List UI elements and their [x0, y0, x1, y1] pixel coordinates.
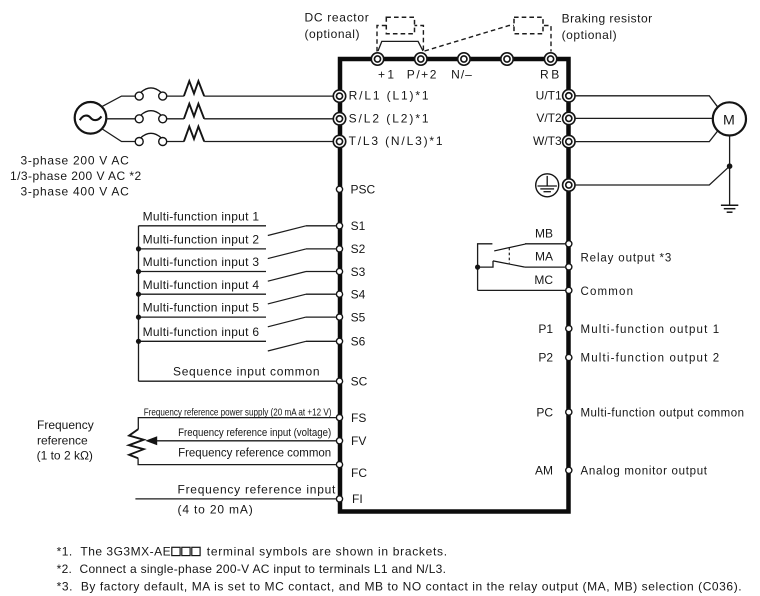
svg-text:MA: MA	[535, 250, 553, 264]
svg-text:S6: S6	[351, 335, 366, 349]
svg-text:FC: FC	[351, 466, 367, 480]
svg-text:PC: PC	[536, 405, 553, 419]
svg-text:*1. The 3G3MX-AE: *1. The 3G3MX-AE	[57, 545, 171, 559]
svg-text:Frequency: Frequency	[37, 418, 94, 432]
terminal MA	[566, 264, 572, 270]
svg-text:P2: P2	[538, 351, 553, 365]
svg-text:(1 to 2 kΩ): (1 to 2 kΩ)	[37, 449, 93, 463]
braking resistor R dashed box	[514, 17, 543, 33]
svg-text:Sequence input common: Sequence input common	[173, 365, 320, 379]
svg-text:Multi-function input 6: Multi-function input 6	[143, 325, 260, 339]
svg-text:Frequency reference common: Frequency reference common	[178, 448, 331, 460]
reactor coil L-R	[184, 81, 204, 96]
terminal S/L2	[333, 113, 345, 125]
ground symbol	[721, 205, 738, 212]
svg-text:T/L3 (N/L3)*1: T/L3 (N/L3)*1	[349, 134, 443, 148]
breaker CB2 (S phase)	[135, 111, 167, 123]
svg-text:reference: reference	[37, 433, 88, 447]
terminal SC	[336, 378, 342, 384]
input S6 row	[136, 339, 336, 351]
terminal AM	[566, 467, 572, 473]
protective earth symbol	[536, 174, 559, 197]
input S4 row	[136, 292, 336, 304]
svg-text:Frequency reference power supp: Frequency reference power supply (20 mA …	[144, 406, 332, 418]
FV wiper arrow	[145, 436, 157, 445]
terminal PSC	[336, 186, 342, 192]
wire source to T phase	[102, 129, 136, 142]
svg-text:(optional): (optional)	[305, 27, 360, 41]
terminal +1	[371, 53, 383, 65]
input S1 row	[139, 226, 336, 236]
braking resistor dashed wires	[425, 26, 552, 52]
input S5 row	[136, 315, 336, 327]
DC reactor L1 dashed box	[386, 17, 414, 33]
terminal PC	[566, 409, 572, 415]
terminal FS	[336, 415, 342, 421]
terminal P/+2	[415, 53, 427, 65]
svg-text:(4 to 20 mA): (4 to 20 mA)	[178, 503, 253, 517]
terminal T/L3	[333, 135, 345, 147]
wire coil to S/L2	[204, 118, 333, 120]
potentiometer RV1	[129, 429, 144, 458]
svg-text:U/T1: U/T1	[536, 88, 562, 102]
inverter body box U1	[340, 59, 569, 512]
svg-text:*2. Connect a single-phase 20: *2. Connect a single-phase 200-V AC inpu…	[57, 562, 446, 576]
svg-text:Multi-function input 1: Multi-function input 1	[143, 209, 260, 223]
input S2 row	[136, 246, 336, 258]
motor M1	[713, 102, 746, 135]
jumper link +1 to P/+2	[378, 41, 423, 51]
input S3 row	[136, 269, 336, 281]
DC reactor dashed wires	[377, 26, 423, 52]
wire V/T2 to motor	[576, 117, 714, 119]
wire U/T1 to motor	[576, 96, 718, 108]
AC source G1	[75, 102, 107, 134]
svg-text:P1: P1	[538, 322, 553, 336]
svg-text:Multi-function output common: Multi-function output common	[581, 407, 745, 419]
svg-text:FS: FS	[351, 411, 366, 425]
sequence common wire	[139, 380, 336, 382]
relay contact K1	[478, 244, 527, 291]
svg-text:Multi-function input 3: Multi-function input 3	[143, 255, 260, 269]
svg-text:Common: Common	[581, 286, 634, 298]
svg-text:DC reactor: DC reactor	[305, 11, 369, 25]
wire CB3 to coil	[167, 141, 184, 143]
svg-text:FI: FI	[352, 492, 363, 506]
svg-text:*3. By factory default, MA is: *3. By factory default, MA is set to MC …	[57, 580, 742, 594]
terminal FC	[336, 462, 342, 468]
wire CB1 to coil	[167, 95, 184, 97]
reactor coil L-T	[184, 127, 204, 142]
wire CB2 to coil	[167, 118, 184, 120]
terminal spare	[501, 53, 513, 65]
svg-text:S2: S2	[351, 242, 366, 256]
svg-text:Multi-function input 4: Multi-function input 4	[143, 278, 260, 292]
svg-text:Frequency reference input: Frequency reference input	[178, 483, 337, 497]
svg-text:Multi-function output 1: Multi-function output 1	[581, 324, 720, 336]
svg-text:S1: S1	[351, 219, 366, 233]
breaker CB3 (T phase)	[135, 133, 167, 145]
svg-text:AM: AM	[535, 464, 553, 478]
terminal S2	[336, 246, 342, 252]
FS wire	[138, 418, 336, 430]
svg-text:MB: MB	[535, 226, 553, 240]
multi-function input bus	[138, 226, 140, 381]
MA wire	[525, 266, 565, 268]
svg-text:R/L1 (L1)*1: R/L1 (L1)*1	[349, 89, 429, 103]
svg-text:S5: S5	[351, 310, 366, 324]
wire source to R phase	[102, 96, 136, 107]
motor ground stem	[729, 136, 731, 206]
terminal P1	[566, 326, 572, 332]
svg-text:1/3-phase 200 V AC *2: 1/3-phase 200 V AC *2	[10, 169, 142, 183]
terminal S4	[336, 291, 342, 297]
terminal R/L1	[333, 90, 345, 102]
terminal N/-	[458, 53, 470, 65]
terminal S5	[336, 314, 342, 320]
terminal S6	[336, 338, 342, 344]
terminal FI	[336, 496, 342, 502]
svg-text:Multi-function output 2: Multi-function output 2	[581, 353, 720, 365]
MC wire	[478, 289, 566, 291]
svg-text:3-phase 200 V AC: 3-phase 200 V AC	[21, 154, 130, 168]
svg-text:Analog monitor output: Analog monitor output	[581, 466, 708, 478]
terminal W/T3	[563, 135, 575, 147]
svg-text:MC: MC	[534, 273, 553, 287]
svg-text:S3: S3	[351, 265, 366, 279]
svg-text:V/T2: V/T2	[536, 111, 562, 125]
svg-text:terminal symbols are shown in: terminal symbols are shown in brackets.	[207, 545, 447, 559]
svg-text:PSC: PSC	[351, 183, 376, 197]
FI wire	[135, 498, 336, 500]
terminal FV	[336, 438, 342, 444]
wire W/T3 to motor	[576, 131, 718, 142]
wire coil to T/L3	[204, 141, 333, 143]
terminal S3	[336, 268, 342, 274]
wire coil to R/L1	[204, 95, 333, 97]
svg-text:Relay output *3: Relay output *3	[581, 252, 672, 264]
wire source to S phase	[106, 118, 135, 120]
terminal U/T1	[563, 90, 575, 102]
svg-text:P/+2: P/+2	[407, 68, 437, 82]
svg-text:3-phase 400 V AC: 3-phase 400 V AC	[21, 185, 130, 199]
svg-text:SC: SC	[351, 375, 368, 389]
breaker CB1 (R phase)	[135, 88, 167, 100]
svg-text:FV: FV	[351, 434, 366, 448]
svg-text:(optional): (optional)	[562, 28, 617, 42]
MB wire	[525, 243, 565, 245]
terminal earth	[563, 179, 575, 191]
svg-text:W/T3: W/T3	[533, 134, 562, 148]
svg-text:S/L2 (L2)*1: S/L2 (L2)*1	[349, 111, 429, 125]
svg-text:Braking resistor: Braking resistor	[562, 11, 653, 25]
svg-text:Frequency reference input (vol: Frequency reference input (voltage)	[178, 427, 331, 439]
svg-text:S4: S4	[351, 288, 366, 302]
relay common dot	[475, 265, 480, 270]
terminal MC	[566, 287, 572, 293]
svg-text:N/–: N/–	[451, 68, 472, 82]
terminal P2	[566, 354, 572, 360]
svg-text:M: M	[723, 112, 735, 128]
terminal V/T2	[563, 112, 575, 124]
terminal RB	[544, 53, 556, 65]
terminal S1	[336, 223, 342, 229]
reactor coil L-S	[184, 104, 204, 119]
junction dot	[727, 163, 733, 169]
wire earth terminal to motor ground	[576, 166, 730, 185]
svg-text:Multi-function input 5: Multi-function input 5	[143, 301, 260, 315]
svg-text:Multi-function input 2: Multi-function input 2	[143, 233, 260, 247]
terminal MB	[566, 241, 572, 247]
